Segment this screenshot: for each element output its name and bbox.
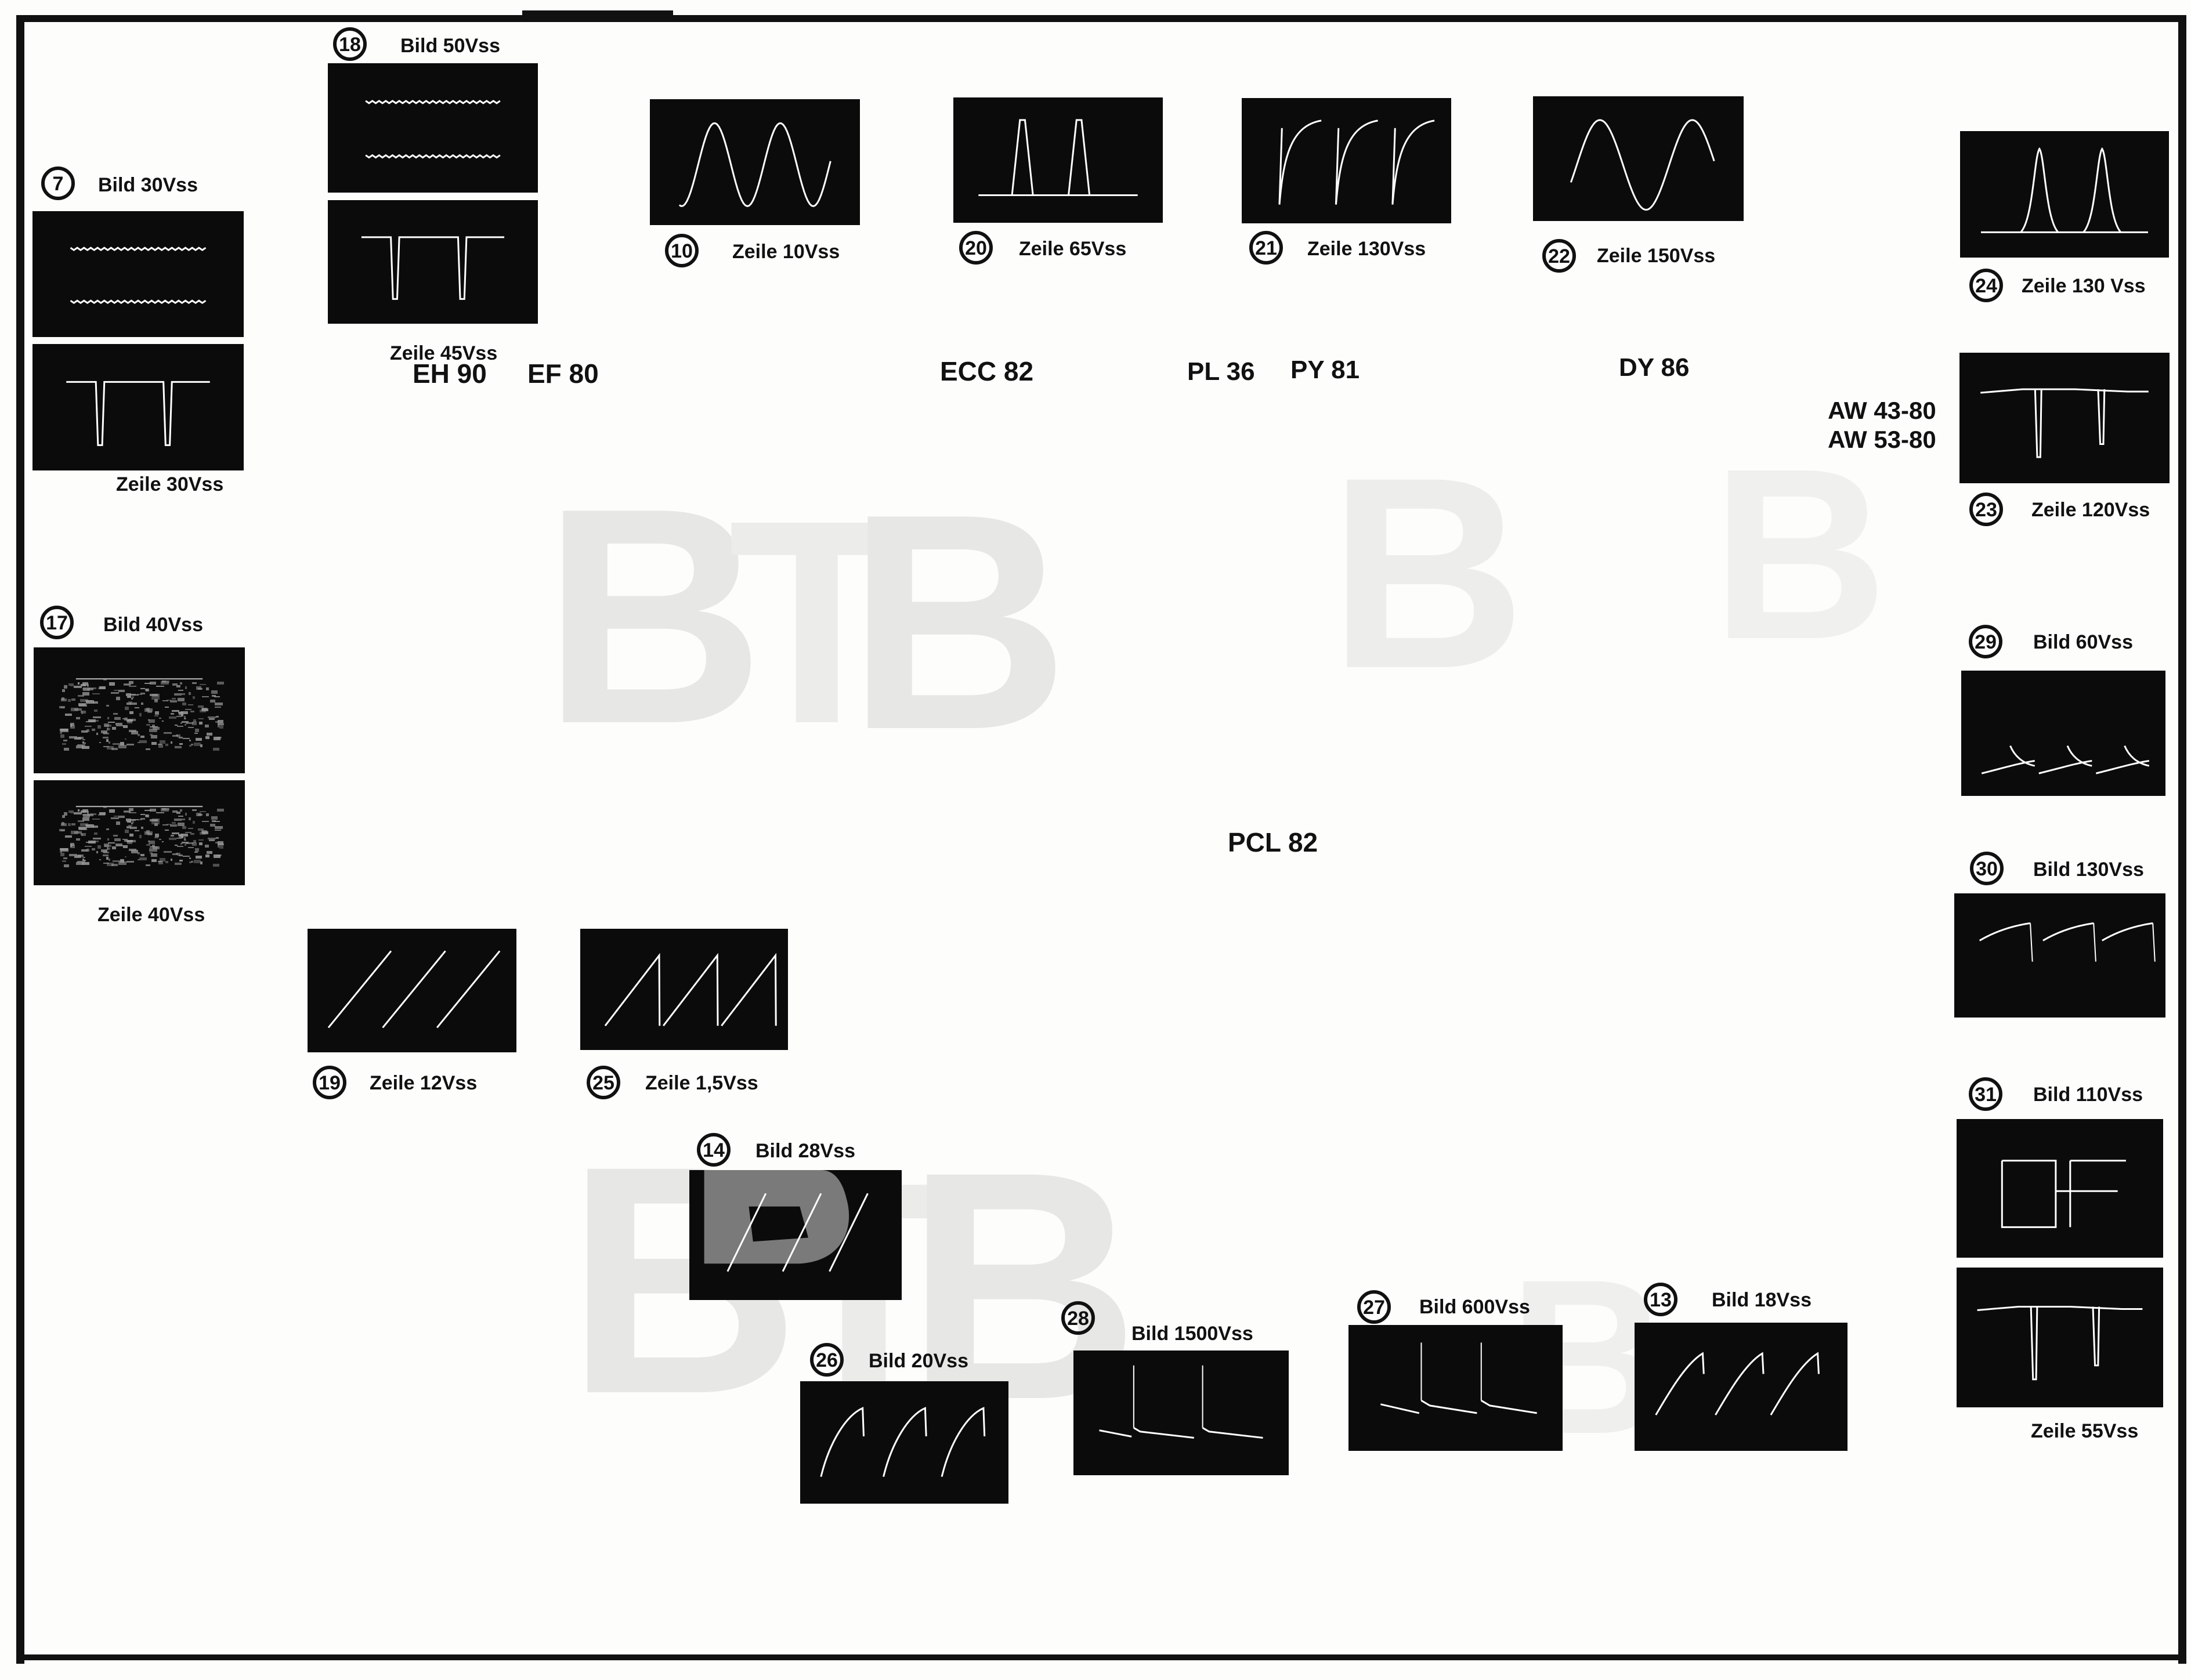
- svg-text:25: 25: [592, 1072, 614, 1094]
- svg-text:Bild 60Vss: Bild 60Vss: [2033, 631, 2133, 653]
- caption circle 14: [699, 1135, 855, 1165]
- caption circle 28: [1063, 1303, 1253, 1345]
- oscillogram photo 24 Zeile 130Vss: [1960, 131, 2169, 258]
- svg-text:13: 13: [1650, 1289, 1672, 1311]
- label PY 81: [1290, 356, 1360, 384]
- svg-text:Zeile 65Vss: Zeile 65Vss: [1019, 238, 1126, 260]
- oscillogram photo 31 Bild 110Vss: [1957, 1119, 2163, 1258]
- oscillogram photo 23 Zeile 120Vss: [1959, 353, 2170, 483]
- svg-text:24: 24: [1975, 275, 1997, 297]
- caption circle 23: [1971, 494, 2150, 524]
- caption circle 19: [314, 1067, 477, 1098]
- svg-text:ECC 82: ECC 82: [940, 356, 1033, 386]
- caption circle 29: [1971, 627, 2133, 657]
- oscillogram photo 17a Bild 40Vss: [34, 647, 245, 773]
- svg-text:DY 86: DY 86: [1619, 353, 1690, 382]
- caption circle 10: [667, 236, 840, 266]
- svg-text:B: B: [847, 450, 1069, 794]
- svg-text:21: 21: [1255, 237, 1277, 259]
- oscillogram photo 13 Bild 18Vss: [1635, 1323, 1847, 1451]
- label DY 86: [1619, 353, 1690, 382]
- watermark BTB center: [543, 444, 1069, 794]
- caption circle 31: [1971, 1079, 2143, 1109]
- oscillogram photo 26 Bild 20Vss: [800, 1381, 1008, 1504]
- caption circle 18: [335, 29, 500, 59]
- svg-text:Bild 600Vss: Bild 600Vss: [1419, 1296, 1530, 1318]
- oscillogram photo 19 Zeile 12Vss: [308, 929, 516, 1052]
- svg-text:Zeile 130 Vss: Zeile 130 Vss: [2022, 275, 2146, 297]
- svg-text:Bild 28Vss: Bild 28Vss: [755, 1140, 855, 1162]
- caption circle 17: [42, 607, 203, 638]
- svg-text:EF 80: EF 80: [527, 359, 599, 389]
- oscillogram photo 21 Zeile 130Vss: [1242, 98, 1451, 223]
- svg-text:AW 43-80: AW 43-80: [1828, 397, 1936, 424]
- oscillogram photo 7a Bild 30Vss: [32, 211, 244, 337]
- svg-text:Zeile 120Vss: Zeile 120Vss: [2031, 499, 2150, 521]
- caption circle 27: [1359, 1292, 1530, 1322]
- caption Zeile 30Vss: [116, 473, 223, 495]
- svg-text:Zeile 150Vss: Zeile 150Vss: [1597, 245, 1715, 267]
- svg-text:B: B: [1712, 418, 1888, 690]
- svg-text:Bild 110Vss: Bild 110Vss: [2033, 1084, 2143, 1106]
- label EF 80: [527, 359, 599, 389]
- svg-text:18: 18: [339, 34, 361, 56]
- watermark B right of center: [1329, 418, 1888, 725]
- svg-text:Zeile 130Vss: Zeile 130Vss: [1307, 238, 1426, 260]
- caption circle 20: [961, 233, 1126, 263]
- oscillogram photo 7b Zeile 30Vss: [32, 344, 244, 470]
- caption circle 26: [812, 1345, 968, 1375]
- caption circle 25: [588, 1067, 758, 1098]
- svg-text:Zeile 40Vss: Zeile 40Vss: [97, 904, 205, 926]
- caption circle 30: [1972, 853, 2144, 884]
- svg-text:Bild 30Vss: Bild 30Vss: [98, 174, 198, 196]
- caption circle 22: [1544, 241, 1715, 271]
- svg-text:7: 7: [53, 173, 64, 195]
- svg-text:31: 31: [1975, 1084, 1997, 1106]
- oscillogram photo 18a Bild 50Vss: [328, 63, 538, 193]
- svg-text:Bild 18Vss: Bild 18Vss: [1712, 1289, 1812, 1311]
- oscillogram photo 28 Bild 1500Vss: [1073, 1350, 1289, 1475]
- oscillogram photo 10 Zeile 10Vss: [650, 99, 860, 225]
- oscillogram photo 30 Bild 130Vss: [1954, 893, 2165, 1018]
- svg-text:Zeile 1,5Vss: Zeile 1,5Vss: [645, 1072, 758, 1094]
- svg-text:Zeile 55Vss: Zeile 55Vss: [2031, 1420, 2138, 1442]
- svg-text:Zeile 10Vss: Zeile 10Vss: [732, 241, 840, 263]
- watermark BTB lower: [566, 1098, 1140, 1467]
- caption Zeile 40Vss: [97, 904, 205, 926]
- caption Zeile 45Vss: [390, 342, 497, 364]
- oscillogram photo 27 Bild 600Vss: [1348, 1325, 1563, 1451]
- caption circle 24: [1971, 270, 2146, 300]
- svg-text:B: B: [1329, 421, 1525, 725]
- svg-text:AW 53-80: AW 53-80: [1828, 426, 1936, 453]
- svg-text:Bild 20Vss: Bild 20Vss: [869, 1350, 968, 1372]
- label EH 90: [413, 359, 487, 389]
- svg-text:30: 30: [1976, 858, 1998, 880]
- svg-text:14: 14: [703, 1139, 725, 1161]
- watermark B lower right: [1509, 1233, 1668, 1480]
- label ECC 82: [940, 356, 1033, 386]
- svg-text:Bild 1500Vss: Bild 1500Vss: [1131, 1323, 1253, 1345]
- svg-text:19: 19: [319, 1072, 341, 1094]
- oscillogram photo Zeile 55Vss: [1957, 1268, 2163, 1407]
- svg-text:EH 90: EH 90: [413, 359, 487, 389]
- svg-text:28: 28: [1067, 1308, 1089, 1330]
- caption Zeile 55Vss: [2031, 1420, 2138, 1442]
- svg-text:PCL 82: PCL 82: [1228, 827, 1318, 857]
- label PL 36: [1187, 357, 1255, 386]
- svg-text:Zeile 12Vss: Zeile 12Vss: [370, 1072, 477, 1094]
- label AW 43-80: [1828, 397, 1936, 424]
- caption circle 7: [43, 168, 198, 198]
- svg-text:Bild 50Vss: Bild 50Vss: [400, 35, 500, 57]
- svg-text:26: 26: [816, 1349, 838, 1371]
- oscillogram photo 25 Zeile 1,5Vss: [580, 929, 788, 1050]
- svg-text:23: 23: [1975, 499, 1997, 521]
- svg-text:20: 20: [965, 237, 987, 259]
- oscillogram photo 22 Zeile 150Vss: [1533, 96, 1744, 221]
- oscillogram photo 29 Bild 60Vss: [1961, 671, 2165, 796]
- svg-text:Bild 40Vss: Bild 40Vss: [103, 614, 203, 636]
- svg-text:22: 22: [1548, 245, 1570, 267]
- svg-text:Bild 130Vss: Bild 130Vss: [2033, 859, 2144, 881]
- svg-text:Zeile 30Vss: Zeile 30Vss: [116, 473, 223, 495]
- oscillogram photo 17b Zeile 40Vss: [34, 780, 245, 885]
- label PCL 82: [1228, 827, 1318, 857]
- label AW 53-80: [1828, 426, 1936, 453]
- svg-text:27: 27: [1363, 1297, 1385, 1319]
- oscillogram photo 14 Bild 28Vss: [689, 1170, 902, 1300]
- caption circle 21: [1251, 233, 1426, 263]
- svg-text:10: 10: [671, 240, 693, 262]
- caption circle 13: [1646, 1284, 1812, 1315]
- oscillogram photo 18b Zeile 45Vss: [328, 200, 538, 324]
- svg-text:17: 17: [46, 612, 68, 634]
- svg-text:PY 81: PY 81: [1290, 356, 1360, 384]
- svg-text:PL 36: PL 36: [1187, 357, 1255, 386]
- oscillogram photo 20 Zeile 65Vss: [953, 97, 1163, 223]
- svg-text:29: 29: [1975, 631, 1997, 653]
